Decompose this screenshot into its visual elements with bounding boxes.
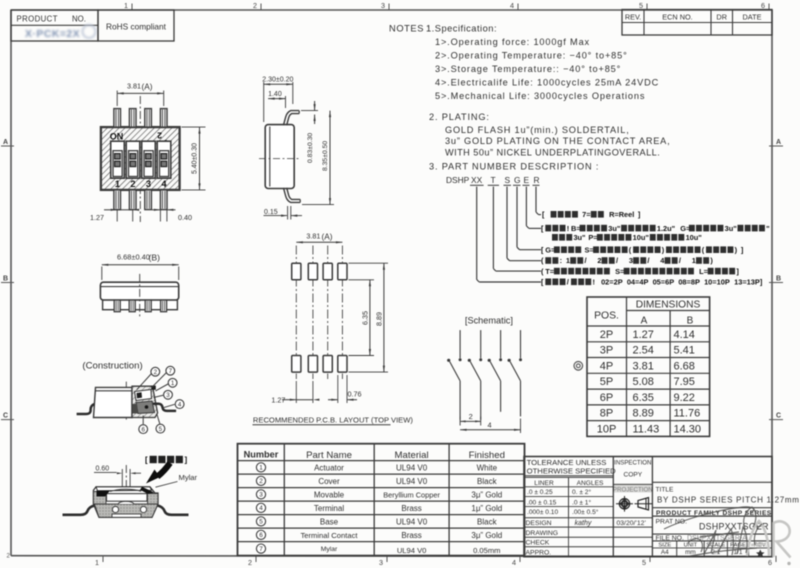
svg-text:1μ” Gold: 1μ” Gold [471,504,502,513]
svg-text:6.35: 6.35 [360,311,369,325]
top view pin bottom 3 [145,190,152,210]
svg-text:UL94 V0: UL94 V0 [396,463,428,472]
svg-text:OTHERWISE SPECIFIED: OTHERWISE SPECIFIED [527,467,617,476]
svg-text:1: 1 [692,256,696,265]
svg-text:3u” GOLD PLATING ON THE: 3u” GOLD PLATING ON THE CONTACT AREA, [445,136,670,146]
inspection copy box [613,460,653,494]
RoHS compliant box [98,10,174,41]
side view dimension 0.83 [301,101,318,163]
svg-text:0.15: 0.15 [264,209,278,216]
svg-text:0. ± 2°: 0. ± 2° [572,488,591,496]
svg-text:Black: Black [477,477,498,486]
svg-text:11.43: 11.43 [633,423,660,435]
svg-text:Finished: Finished [469,450,505,461]
svg-text:APPRO.: APPRO. [526,550,552,557]
svg-text:8.35±0.50: 8.35±0.50 [322,141,329,171]
svg-text:7: 7 [259,546,263,553]
svg-text:]: ] [184,456,187,465]
svg-text:S: S [505,175,511,185]
description line: pin counts [541,256,713,265]
svg-text:X·PCK=2X: X·PCK=2X [25,29,80,40]
svg-text:S=: S= [615,267,625,276]
svg-text:G: G [514,175,521,185]
top view pin bottom 2 [129,190,136,210]
svg-text:L=: L= [699,267,709,276]
svg-text:/: / [647,256,649,265]
watermark ghost letters [747,521,791,558]
svg-text:.0 ± 1°: .0 ± 1° [572,498,591,506]
part number code DSHP XX T S G E R [446,175,540,185]
svg-text:SIZE: SIZE [658,542,671,548]
PRODUCT NO. box [11,10,98,41]
svg-text:4>.Electricalife Life: 1000cy: 4>.Electricalife Life: 1000cycles 25mA 2… [435,78,659,88]
svg-text:6.35: 6.35 [633,392,654,404]
pcb pad bottom 3 [323,356,332,373]
svg-text:2: 2 [469,412,473,421]
Mylar label [156,473,198,487]
svg-text:1.40: 1.40 [268,91,282,98]
svg-text:.0 ± 0.25: .0 ± 0.25 [527,489,553,496]
description line: plating row2 [552,233,702,242]
svg-text:B: B [3,276,8,283]
pcb dimension 0.76 [328,375,362,403]
schematic switch 2 [468,330,483,420]
svg-text:P=: P= [588,233,598,242]
pcb dimension 6.35 [349,280,375,356]
svg-text:3.81: 3.81 [633,360,654,372]
construction right lead [153,404,176,411]
svg-text:DR: DR [716,12,727,21]
svg-text:4: 4 [488,421,492,430]
svg-text:DESIGN: DESIGN [526,520,552,527]
svg-text:08=8P: 08=8P [678,278,700,287]
svg-text:3: 3 [166,392,170,399]
svg-text:9.22: 9.22 [674,392,695,404]
title box [652,482,799,557]
svg-text:.00± 0.5°: .00± 0.5° [572,508,599,516]
projection symbol [614,485,652,512]
construction centerline [125,382,127,421]
svg-text:NOTES :: NOTES : [389,24,430,34]
svg-text:2: 2 [248,558,252,567]
svg-text:E: E [524,175,530,185]
construction part 6 callout [139,416,148,434]
svg-text:6: 6 [761,1,765,10]
svg-text:11.76: 11.76 [674,408,701,420]
mylar section right lead [158,506,189,515]
slider travel label (bold) [145,456,187,465]
svg-text:1.27: 1.27 [271,396,285,405]
svg-text:6: 6 [141,426,145,433]
svg-text:3μ” Gold: 3μ” Gold [471,490,502,499]
description line: T=tape S=no-tape L=long [541,267,739,276]
svg-text:Base: Base [320,517,339,526]
construction left lead [77,404,95,414]
svg-text:kathy: kathy [575,520,592,527]
svg-text:2P: 2P [600,329,613,341]
pcb layout dimension 3.81(A) [296,232,342,244]
bottom view centerline [139,274,141,317]
svg-text:5P: 5P [600,376,613,388]
svg-text:1.27: 1.27 [90,213,104,222]
pcb dimension 8.89 [349,263,389,372]
construction part 7 callout [152,366,175,387]
svg-text:2: 2 [253,1,257,10]
top view pin top 2 [129,109,136,128]
bottom view pad 1 [114,300,120,312]
pcb pad top 2 [308,263,317,280]
svg-text:2: 2 [259,478,263,485]
side view bottom lead [283,188,300,203]
watermark dot [787,562,790,565]
svg-text:LINER: LINER [534,480,554,487]
svg-text:/: / [567,278,569,287]
svg-text:5: 5 [259,519,263,526]
svg-text:3u": 3u" [725,224,738,233]
svg-text:3.81: 3.81 [306,232,320,241]
construction part 1 callout [156,378,178,391]
svg-text:Number: Number [244,449,279,459]
top view dimension 0.40 [152,209,192,222]
svg-text:3: 3 [629,256,633,265]
svg-text:UL94 V0: UL94 V0 [396,477,428,486]
svg-text:Black: Black [477,517,498,526]
svg-text:/: / [616,256,618,265]
product number watermark (blue) [25,25,96,40]
svg-text:C: C [3,413,8,420]
svg-text:6: 6 [768,558,772,567]
REV / ECN NO. / DR / DATE table [622,10,772,36]
svg-text:5.41: 5.41 [674,345,695,357]
svg-text:0.83±0.30: 0.83±0.30 [307,133,314,163]
part number description tree lines [477,187,541,282]
side view body [259,125,299,189]
pcb pad bottom 2 [308,356,317,373]
svg-text:T: T [491,175,496,185]
svg-text:REV.: REV. [625,12,641,21]
svg-text:PRODUCT: PRODUCT [17,15,58,24]
dimensions table [587,297,710,436]
top view dimension 3.81(A) [117,82,164,107]
svg-text:TOLERANCE UNLESS: TOLERANCE UNLESS [527,458,607,467]
pcb pad top 1 [292,263,301,280]
svg-text:Terminal Contact: Terminal Contact [301,531,359,540]
svg-text:Brass: Brass [401,531,421,540]
svg-text:4: 4 [510,1,514,10]
svg-text:5.40±0.30: 5.40±0.30 [192,143,199,174]
svg-text:Material: Material [395,450,429,461]
svg-text:4: 4 [512,558,516,567]
svg-text:CHECK: CHECK [526,540,550,547]
pcb pad centerline 4 [341,246,343,380]
pcb pad bottom 1 [292,356,301,373]
bottom view pad 2 [129,300,135,312]
svg-text:DRAWING: DRAWING [526,530,559,537]
top view switch window 2 [126,141,140,178]
top view pin1 mark [157,131,168,148]
svg-text:5.08: 5.08 [633,376,654,388]
svg-text:TITLE: TITLE [656,487,675,494]
svg-text:/: / [584,256,586,265]
notes specification text [389,24,659,102]
svg-text:1: 1 [115,179,120,189]
svg-text:6: 6 [259,532,263,539]
schematic dimension 4 [460,419,520,434]
svg-text:14.30: 14.30 [674,423,702,435]
svg-text:(Construction): (Construction) [82,361,142,372]
pcb pad top 3 [323,263,332,280]
top view centerline [139,96,141,222]
svg-text:0.76: 0.76 [348,390,362,399]
svg-text:(B): (B) [149,253,161,263]
svg-text:5>.Mechanical Life: 3000cycle: 5>.Mechanical Life: 3000cycles Operation… [435,91,645,101]
svg-text:6.68±0.40: 6.68±0.40 [117,253,150,262]
thick curved arrow [146,463,170,484]
bottom view pad 3 [145,300,151,312]
mylar section left lead [63,506,95,515]
svg-text:(A): (A) [142,83,153,92]
svg-text:A: A [776,139,781,146]
svg-text:3: 3 [259,492,263,499]
svg-text:1: 1 [171,380,175,387]
svg-text:3>.Storage Temperature:: −40°: 3>.Storage Temperature:: −40° to+85° [435,64,621,74]
svg-text:COPY: COPY [623,472,642,479]
svg-text:4: 4 [178,401,182,408]
svg-text:6.68: 6.68 [674,360,695,372]
mylar view centerline [125,465,127,520]
svg-text:10P: 10P [597,423,617,435]
svg-text:RECOMMENDED P.C.B. LAYOUT (: RECOMMENDED P.C.B. LAYOUT (TOP VIEW) [253,415,414,424]
svg-text:Beryllium Copper: Beryllium Copper [383,490,440,499]
svg-text:0.60: 0.60 [96,465,110,472]
svg-text:BY DSHP SERIES PITCH 1.27m: BY DSHP SERIES PITCH 1.27mm [657,496,800,505]
svg-text:1: 1 [95,558,99,567]
bottom view dimension 6.68(B) [102,253,179,281]
schematic switch 4 [508,330,523,416]
svg-text:XX: XX [471,175,483,185]
svg-text:Terminal: Terminal [314,504,344,513]
construction part 5 callout [156,415,165,434]
schematic switch 3 [488,330,503,412]
svg-text:DIMENSIONS: DIMENSIONS [636,300,701,311]
description line: product codes 02=2P..13=13P [541,278,763,287]
svg-text:!: ! [592,278,594,287]
svg-text:7.95: 7.95 [674,376,695,388]
pcb pad top 4 [338,263,347,280]
svg-text:Part Name: Part Name [306,450,352,461]
description line: G=gold S=inner gold [541,245,744,254]
svg-text:": " [766,224,770,233]
construction part 4 callout [163,400,184,409]
svg-text:7=: 7= [582,210,591,219]
svg-text:7: 7 [169,368,173,375]
svg-text:3: 3 [146,179,151,189]
top view switch window 1 [111,141,125,178]
top view pin bottom 4 [160,190,167,210]
pcb pad centerline 3 [327,246,329,380]
construction part 2 callout [137,367,160,389]
svg-text:S=: S= [584,245,594,254]
svg-text:ON: ON [110,132,124,142]
parts table [238,444,525,556]
svg-text:UNIT: UNIT [684,542,698,548]
svg-text:8.89: 8.89 [633,408,654,420]
top view pin bottom 1 [114,190,121,210]
svg-text:3.81: 3.81 [127,82,141,91]
svg-text:White: White [477,463,498,472]
svg-text:DATE: DATE [743,12,762,21]
construction body left [94,387,133,417]
mylar section body [93,487,158,518]
svg-text:4: 4 [161,179,167,189]
svg-text:RoHS compliant: RoHS compliant [106,22,167,32]
svg-text:3: 3 [381,1,385,10]
description line: packaging 7=tube R=Reel [542,210,641,219]
pcb layout caption [253,415,414,425]
svg-text:1.Specification:: 1.Specification: [426,24,497,34]
svg-text:1: 1 [566,256,570,265]
svg-text:5: 5 [159,426,163,433]
svg-text:0.40: 0.40 [178,213,192,222]
registered mark symbol [574,362,583,371]
top view pin top 4 [160,109,167,128]
svg-text:ANGLES: ANGLES [577,480,604,487]
svg-text:C: C [776,413,781,420]
svg-text:2>.Operating Temperature: −40: 2>.Operating Temperature: −40° to+85° [435,51,628,61]
svg-text:5: 5 [639,1,643,10]
svg-text:GOLD FLASH 1u”(min.) SOLDER: GOLD FLASH 1u”(min.) SOLDERTAIL, [445,125,630,135]
svg-text:2.30±0.20: 2.30±0.20 [262,77,293,84]
svg-text:Mylar: Mylar [321,546,338,553]
svg-text:DSHP: DSHP [446,175,470,185]
svg-text:2: 2 [597,256,601,265]
svg-text:Movable: Movable [314,490,345,499]
svg-text:4: 4 [259,505,263,512]
svg-text:2: 2 [130,179,135,189]
svg-text:1.2u": 1.2u" [657,224,676,233]
top view dimension 1.27 [90,209,139,222]
svg-text:3μ” Gold: 3μ” Gold [471,531,502,540]
svg-text:[: [ [145,456,148,465]
svg-text:1: 1 [259,465,263,472]
svg-text:NO.: NO. [72,15,86,24]
top view body (hatched) [101,127,180,190]
svg-text:Brass: Brass [401,504,421,513]
svg-text::: : [560,256,562,265]
svg-text:.00 ± 0.15: .00 ± 0.15 [527,499,557,506]
svg-text:8P: 8P [600,408,613,420]
pcb pad bottom 4 [338,356,347,373]
svg-text:ECN NO.: ECN NO. [662,12,692,21]
svg-text:!: ! [567,224,569,233]
svg-text:3u": 3u" [608,224,621,233]
construction part 3 callout [154,390,173,399]
svg-text:6P: 6P [600,392,613,404]
side view dimension 0.15 [264,206,303,220]
title block tolerance table [524,457,772,557]
top view switch window 4 [157,141,171,178]
top view switch window 3 [142,141,156,178]
construction switch section (hatched) [132,386,158,418]
svg-text:3u": 3u" [573,233,586,242]
svg-text:[Schematic]: [Schematic] [465,316,513,326]
svg-text:POS.: POS. [594,311,619,322]
svg-text:03/20/’12’: 03/20/’12’ [617,520,647,527]
svg-text:10u": 10u" [633,233,650,242]
svg-text:UL94 V0: UL94 V0 [397,546,427,555]
description line: plating B/G row1 [541,224,770,233]
schematic switch 1 [447,330,462,420]
svg-text:02=2P: 02=2P [601,278,623,287]
side view dimension 1.40 [268,91,285,108]
pcb pad centerline 1 [295,246,297,380]
side view top lead [283,111,299,126]
svg-text:B: B [687,316,694,327]
svg-text:0.05mm: 0.05mm [473,546,500,555]
svg-text:1: 1 [124,1,128,10]
svg-text:5: 5 [642,558,646,567]
top view pin top 1 [114,109,121,128]
svg-text:05=6P: 05=6P [653,278,675,287]
svg-text:1>.Operating force: 1000gf M: 1>.Operating force: 1000gf Max [435,37,590,47]
watermark scrawl [664,507,762,556]
svg-text:Actuator: Actuator [314,463,344,472]
svg-text:3. PART NUMBER DESCRIPTION: 3. PART NUMBER DESCRIPTION : [429,162,599,172]
svg-text:Cover: Cover [318,477,340,486]
svg-text:INSPECTION: INSPECTION [614,460,651,467]
svg-text:UL94 V0: UL94 V0 [396,517,428,526]
svg-text:T=: T= [545,267,555,276]
svg-text:3P: 3P [600,345,613,357]
svg-text:R: R [534,175,540,185]
bottom view pad 4 [161,300,167,312]
side view dimension 2.30 [262,77,293,123]
svg-text:Mylar: Mylar [179,473,198,482]
svg-text:3: 3 [379,558,383,567]
svg-text:A: A [3,139,8,146]
side view dimension 8.35 [302,111,334,205]
schematic dimension 2 [460,412,481,425]
svg-text:2: 2 [154,369,158,376]
svg-text:(A): (A) [322,233,333,242]
svg-text:B: B [776,276,781,283]
svg-text:WITH 50u” NICKEL UNDERPLATI: WITH 50u” NICKEL UNDERPLATINGOVERALL. [445,148,660,158]
top view dimension 5.40 [182,127,206,190]
svg-text:10=10P: 10=10P [704,278,730,287]
svg-text:8.89: 8.89 [374,312,383,326]
svg-text:4P: 4P [600,360,613,372]
svg-text:2. PLATING:: 2. PLATING: [429,112,490,122]
top view pin top 3 [145,109,152,128]
svg-text:2.54: 2.54 [633,345,654,357]
mylar view dimension 0.60 [94,465,141,488]
svg-text:13=13P: 13=13P [734,278,760,287]
svg-text:1.27: 1.27 [633,329,654,341]
svg-text:.000± 0.10: .000± 0.10 [527,509,558,516]
svg-text:10u": 10u" [686,233,703,242]
pcb dimension 1.27 [271,381,319,405]
notes plating text [429,112,670,172]
pcb pad centerline 2 [312,246,314,380]
bottom view body [100,282,178,310]
svg-text:04=4P: 04=4P [627,278,649,287]
svg-text:A4: A4 [661,549,669,556]
svg-text:A: A [641,316,648,327]
svg-text:4.14: 4.14 [674,329,695,341]
svg-text:R=Reel: R=Reel [609,210,634,219]
svg-text:/: / [679,256,681,265]
svg-text:2: 2 [157,131,162,141]
